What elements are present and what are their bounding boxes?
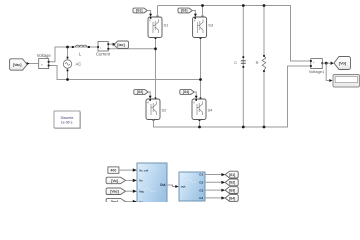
- wire: Vo to controller: [126, 179, 134, 181]
- junction node: AC top tap: [66, 46, 69, 49]
- junction node: leg1 midpoint: [154, 47, 157, 50]
- svg-text:Vo: Vo: [139, 179, 143, 183]
- IGBT switch S3: [193, 17, 214, 38]
- svg-text:G2: G2: [199, 181, 203, 185]
- svg-text:S4: S4: [208, 108, 214, 113]
- port square S4 collector: [200, 97, 202, 99]
- wire: Voltage output to Vac goto: [28, 63, 39, 65]
- wire: G3 out: [205, 189, 222, 191]
- svg-text:Voltage: Voltage: [37, 53, 52, 58]
- constant block 400: [108, 167, 119, 173]
- junction node: leg2 midpoint: [199, 78, 202, 81]
- port square S2 emitter: [153, 119, 155, 121]
- svg-text:L: L: [79, 52, 82, 57]
- junction node: bottom bus R: [263, 126, 266, 129]
- svg-text:[Iac]: [Iac]: [117, 43, 124, 47]
- svg-text:1e-06 s.: 1e-06 s.: [61, 121, 74, 125]
- junction node: top bus C: [242, 4, 245, 7]
- goto tag [Iac]: [113, 41, 129, 49]
- svg-text:Vac: Vac: [139, 190, 145, 194]
- svg-text:C: C: [234, 60, 237, 65]
- svg-text:[G3]: [G3]: [229, 188, 235, 192]
- svg-text:[G4]: [G4]: [229, 196, 235, 200]
- voltage measurement block "Voltage1": [309, 59, 325, 74]
- svg-text:S2: S2: [162, 108, 168, 113]
- wire: current to Iac goto: [109, 43, 113, 45]
- IGBT switch S2: [146, 99, 167, 120]
- from tag [G2]: [134, 90, 148, 95]
- wire: Voltage1 out to Vo goto: [322, 62, 331, 64]
- capacitor C: [234, 56, 246, 68]
- from tag [Vac] bottom: [106, 188, 125, 195]
- svg-text:[G3]: [G3]: [181, 9, 187, 13]
- wire: G3 to S3 gate: [193, 11, 196, 15]
- wire: Vac to controller: [126, 190, 134, 192]
- wire: C branch: [242, 6, 244, 128]
- wire: controller to pwm: [167, 185, 176, 187]
- svg-text:+: +: [313, 60, 315, 64]
- port square S3 collector: [202, 15, 204, 17]
- junction node: AC bottom tap: [66, 78, 69, 81]
- svg-text:[G1]: [G1]: [136, 9, 142, 13]
- wire: current meas to leg1: [108, 48, 155, 50]
- svg-text:G1: G1: [199, 173, 203, 177]
- wire: AC bottom loop: [49, 66, 201, 80]
- svg-text:[Vo]: [Vo]: [339, 61, 347, 66]
- junction node: bottom bus S4: [198, 126, 201, 129]
- wire: G4 to S4 gate: [194, 92, 196, 96]
- svg-text:R: R: [256, 60, 259, 65]
- wire: G1 to S1 gate: [148, 11, 151, 15]
- port square S4 emitter: [199, 119, 201, 121]
- svg-text:400: 400: [110, 169, 116, 173]
- svg-text:G3: G3: [199, 188, 203, 192]
- svg-text:S3: S3: [208, 23, 214, 28]
- goto tag [G4] bottom: [225, 195, 238, 202]
- wire: S2 emitter stub: [153, 120, 155, 128]
- pwm subsystem block: [179, 172, 205, 201]
- scope display block: [333, 75, 360, 88]
- junction node: top bus S3: [201, 4, 204, 7]
- wire: G4 out: [205, 197, 222, 199]
- svg-text:[Iac]: [Iac]: [111, 200, 118, 202]
- wire: AC top loop with inductor path: [49, 47, 98, 62]
- wire: R branch top/bottom: [263, 6, 265, 128]
- svg-text:[G2]: [G2]: [137, 90, 143, 94]
- wire: G1 out: [205, 174, 222, 176]
- voltage measurement block "Voltage": [37, 53, 52, 69]
- goto tag [Vo]: [331, 57, 351, 70]
- svg-text:out: out: [181, 185, 186, 189]
- junction node: top bus R: [263, 4, 266, 7]
- wire: bottom DC bus: [154, 66, 311, 127]
- from tag [G3]: [178, 8, 192, 13]
- svg-text:Vo_ref: Vo_ref: [139, 168, 148, 172]
- controller subsystem block: [137, 163, 167, 207]
- wire: AC source taps: [67, 47, 69, 80]
- svg-text:Out: Out: [160, 183, 166, 187]
- wire: S1 collector stub: [157, 6, 159, 18]
- inductor L: [72, 45, 90, 56]
- IGBT switch S1: [148, 17, 169, 38]
- svg-text:S1: S1: [164, 23, 170, 28]
- from tag [G4]: [180, 90, 194, 95]
- svg-text:[Vac]: [Vac]: [110, 190, 119, 194]
- current measurement block "Current": [96, 42, 111, 57]
- junction node: Vo branch: [325, 62, 328, 65]
- IGBT switch S4: [192, 99, 213, 120]
- from tag [G1]: [133, 8, 147, 13]
- port square S3 emitter: [200, 37, 202, 39]
- junction node: bottom bus C: [242, 126, 245, 129]
- goto tag [G3] bottom: [225, 187, 238, 194]
- port square S1 collector: [157, 15, 159, 17]
- svg-text:[Vo]: [Vo]: [111, 179, 118, 183]
- goto tag [Vac] left: [10, 59, 30, 70]
- wire: 400 to controller: [119, 169, 134, 171]
- from tag [Iac] bottom: [106, 198, 125, 205]
- wire: G2 out: [205, 181, 222, 183]
- wire: top DC bus: [158, 6, 311, 62]
- wire: S4 emitter stub: [199, 122, 201, 128]
- goto tag [G1] bottom: [225, 171, 238, 178]
- wire: Vo branch down to scope: [326, 63, 329, 80]
- AC source: [63, 57, 81, 72]
- goto tag [G2] bottom: [225, 179, 238, 186]
- powergui block: [54, 111, 81, 129]
- svg-text:Iac: Iac: [139, 200, 144, 202]
- port square S2 collector: [155, 97, 157, 99]
- svg-text:[Vac]: [Vac]: [13, 63, 22, 67]
- port square S1 emitter: [155, 37, 157, 39]
- wire: Iac to controller: [126, 201, 134, 203]
- svg-text:[G2]: [G2]: [229, 181, 235, 185]
- svg-text:Voltage1: Voltage1: [309, 69, 325, 74]
- svg-text:[G1]: [G1]: [229, 173, 235, 177]
- svg-text:G4: G4: [199, 196, 203, 200]
- wire: leg2 vertical S3-S4: [200, 38, 202, 100]
- svg-text:AC: AC: [76, 62, 82, 67]
- svg-text:Current: Current: [96, 51, 111, 56]
- resistor R: [256, 55, 266, 72]
- svg-text:[G4]: [G4]: [183, 90, 189, 94]
- from tag [Vo] bottom: [106, 177, 125, 184]
- wire: S3 collector stub: [202, 6, 204, 18]
- wire: G2 to S2 gate: [148, 92, 150, 96]
- wire: leg1 vertical S1-S2: [155, 38, 157, 100]
